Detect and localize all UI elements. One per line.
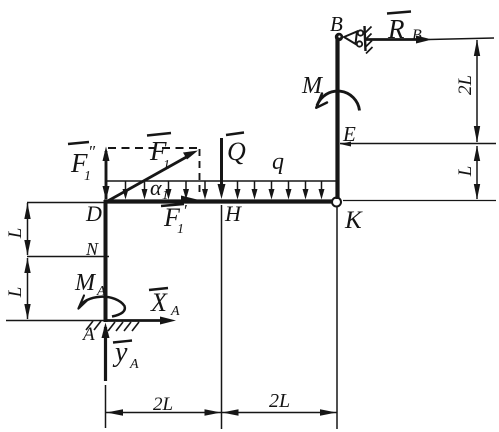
member D-A vertical column xyxy=(104,200,108,322)
svg-text:L: L xyxy=(5,228,26,240)
distributed load q arrows xyxy=(123,181,325,200)
svg-text:q: q xyxy=(272,149,284,175)
dimension line L lower left xyxy=(24,258,30,320)
svg-text:B: B xyxy=(330,12,343,36)
extension line below A xyxy=(105,385,107,428)
force F1' horizontal component arrowhead xyxy=(181,196,197,204)
svg-text:α: α xyxy=(150,175,162,200)
extension line at D level left xyxy=(27,202,104,204)
node K hinge circle xyxy=(332,198,341,207)
moment M arc xyxy=(316,91,359,110)
svg-text:″: ″ xyxy=(88,142,96,161)
member D-K horizontal beam xyxy=(104,199,333,203)
force Q label xyxy=(226,133,246,167)
extension line at N level xyxy=(27,256,109,258)
svg-text:L: L xyxy=(455,166,476,178)
svg-text:2L: 2L xyxy=(153,394,173,415)
svg-text:X: X xyxy=(150,288,168,317)
force XA arrow xyxy=(106,317,176,325)
force R_B arrow xyxy=(366,36,432,44)
force Q arrow xyxy=(218,138,226,199)
extension line at K level right xyxy=(343,200,496,202)
support at B rollers xyxy=(357,30,363,46)
svg-text:B: B xyxy=(412,27,422,44)
svg-text:A: A xyxy=(96,284,106,299)
force F1'' label xyxy=(68,142,96,184)
dimension line L upper left xyxy=(24,203,30,256)
svg-text:D: D xyxy=(85,201,102,226)
svg-text:2L: 2L xyxy=(269,390,290,412)
force F1' label xyxy=(161,201,187,237)
support at B wall hatching xyxy=(365,27,373,54)
svg-text:1: 1 xyxy=(177,222,184,237)
member B-K vertical column xyxy=(335,36,339,199)
dashed construction line horizontal xyxy=(108,147,199,149)
force R_B label xyxy=(387,12,422,45)
dimension line L right side xyxy=(474,146,480,200)
svg-text:2L: 2L xyxy=(455,75,476,95)
force F1'' vertical component arrow xyxy=(103,147,110,201)
dimension extension line top right xyxy=(429,38,494,40)
svg-text:M: M xyxy=(301,73,324,99)
node B pin circle xyxy=(335,33,343,41)
support at B wall xyxy=(365,26,366,51)
svg-text:M: M xyxy=(74,270,97,296)
svg-text:A: A xyxy=(170,304,180,319)
force YA label xyxy=(112,337,139,372)
support at A hatching xyxy=(86,321,139,331)
svg-text:L: L xyxy=(5,287,26,299)
svg-text:A: A xyxy=(129,357,139,372)
force XA label xyxy=(149,288,180,319)
dimension line 2L bottom right segment xyxy=(222,409,337,415)
extension line at E level xyxy=(340,143,496,145)
svg-text:H: H xyxy=(224,201,242,226)
extension line below K xyxy=(336,207,338,429)
distributed load q top line xyxy=(106,180,337,182)
dimension line 2L right side xyxy=(474,40,480,143)
svg-text:1: 1 xyxy=(163,158,170,173)
moment MA arc xyxy=(78,296,124,317)
svg-text:E: E xyxy=(342,122,356,146)
support at B roller triangle xyxy=(344,32,357,45)
svg-text:′: ′ xyxy=(183,201,187,220)
force F1 diagonal arrow xyxy=(106,151,198,203)
svg-text:K: K xyxy=(344,207,363,234)
force YA arrow xyxy=(102,323,110,382)
dashed construction line vertical xyxy=(199,149,201,196)
moment MA label xyxy=(74,270,106,299)
dimension line 2L bottom left segment xyxy=(106,409,221,415)
angle alpha1 label xyxy=(150,175,169,202)
extension line below H xyxy=(221,205,223,429)
svg-text:Q: Q xyxy=(227,137,246,166)
svg-text:1: 1 xyxy=(162,187,169,202)
svg-text:R: R xyxy=(387,14,405,44)
svg-text:A: A xyxy=(81,324,95,345)
force F1 label xyxy=(147,133,171,173)
svg-text:1: 1 xyxy=(84,169,91,184)
extension line at A level xyxy=(6,320,104,322)
